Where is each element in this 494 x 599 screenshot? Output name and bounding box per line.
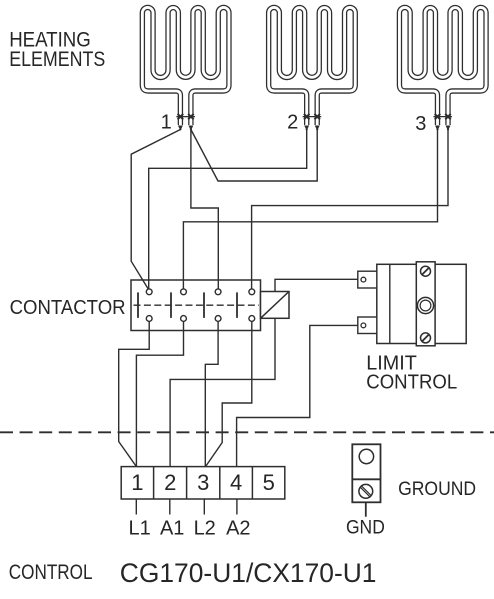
crimp X marks E3 [435,114,451,120]
ground screw [359,484,373,498]
wire limit control bottom terminal to terminal 4 [237,325,362,466]
contactor terminal circles [146,289,254,322]
wire E1 left lead to contactor pole1 top [131,130,180,290]
contactor coil box [261,292,290,319]
wire E2 left lead to contactor pole1 top [149,130,307,290]
limit control top terminal tab [358,271,377,288]
svg-text:CONTACTOR: CONTACTOR [10,297,126,319]
wire E1 right lead to contactor pole3 top [191,130,218,290]
svg-text:5: 5 [263,470,275,495]
svg-text:4: 4 [230,470,242,495]
contactor K1 box [131,280,261,331]
svg-text:A2: A2 [226,518,250,540]
svg-text:2: 2 [287,112,298,134]
heating element E1 [142,7,229,125]
svg-text:L1: L1 [128,518,150,540]
svg-text:GROUND: GROUND [398,479,476,500]
terminal stubs below block [136,499,237,515]
svg-text:CONTROL: CONTROL [366,371,457,393]
terminal block dividers [154,467,253,499]
lead tips E1 [178,126,194,131]
coil box diagonal [261,292,290,319]
svg-text:ELEMENTS: ELEMENTS [9,48,105,71]
wire pole3 bottom to terminal 3 [205,321,218,466]
wire E3 right lead to contactor pole4 top [252,130,448,290]
svg-text:3: 3 [197,470,209,495]
terminal numbers 1-5 [131,470,275,495]
contactor contact bars [138,292,237,318]
wire pole4 bottom to terminal 3 [206,321,252,466]
contactor mechanical linkage dashed line [134,304,260,306]
labels L1 A1 L2 A2 [128,518,250,540]
wire E3 left lead to contactor pole2 top [183,130,437,290]
wire pole1 bottom to terminal 1 [119,321,150,466]
crimp X marks E1 [178,114,194,120]
svg-text:CONTROL: CONTROL [9,561,93,584]
limit control inner divider [389,264,391,343]
ground stub [365,502,367,516]
crimp bar E3 [433,116,452,118]
ground terminal box [352,444,380,502]
wire E1 right lead to E2 right lead [191,130,317,182]
svg-text:1: 1 [131,470,143,495]
crimp X marks E2 [304,114,320,120]
limit control bottom terminal tab [358,317,377,334]
svg-text:2: 2 [164,470,176,495]
wire coil bottom to terminal 2 [170,318,275,466]
limit control body [377,264,466,343]
terminal block box [121,467,285,499]
crimp bar E2 [303,116,322,118]
svg-text:1: 1 [161,112,172,134]
heating element E3 [399,7,486,125]
ground box divider [352,478,380,480]
svg-text:GND: GND [346,517,385,538]
lead tips E3 [435,126,451,131]
limit control strip [416,262,435,346]
svg-text:3: 3 [415,113,426,135]
dashed separator line [0,431,494,433]
limit control top screw [421,266,431,276]
ground hole circle [359,449,373,463]
wire coil top to limit control top terminal [275,279,362,291]
svg-text:A1: A1 [160,518,184,540]
wire pole2 bottom to terminal 1 [136,321,183,466]
limit control center bulb [417,297,433,313]
crimp bar E1 [176,116,195,118]
svg-text:CG170-U1/CX170-U1: CG170-U1/CX170-U1 [120,558,377,588]
svg-text:L2: L2 [194,518,216,540]
limit control bottom screw [421,333,431,343]
lead tips E2 [304,126,320,131]
heating element E2 [269,7,356,125]
